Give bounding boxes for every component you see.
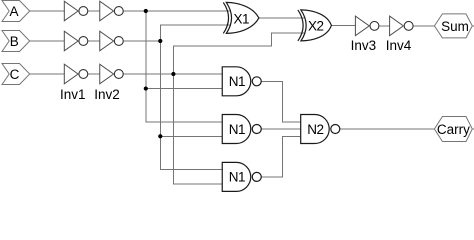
svg-text:Inv4: Inv4 <box>386 38 412 53</box>
junction dot B to N1b <box>158 134 162 138</box>
svg-text:X2: X2 <box>308 18 324 33</box>
inverter A row first (triangle and bubble) <box>64 1 88 21</box>
wire Carry tag right stub <box>472 128 474 130</box>
output tag Sum <box>434 14 472 38</box>
inverter A row second <box>100 1 124 21</box>
wire B vertical tap down to N1c <box>160 41 224 170</box>
svg-text:Carry: Carry <box>437 122 470 137</box>
input tag B <box>2 31 30 52</box>
wire N1a output to N2 top input <box>261 81 302 121</box>
wire C row: between inverters <box>88 73 101 75</box>
junction dot C row <box>171 72 175 76</box>
input tag A <box>2 1 30 22</box>
svg-text:B: B <box>10 34 19 49</box>
svg-text:N2: N2 <box>307 122 323 137</box>
wire N1c output to N2 bottom input <box>261 136 302 177</box>
input tag C <box>2 64 30 85</box>
svg-text:A: A <box>9 4 18 19</box>
wire A vertical tap down <box>146 11 224 122</box>
wire B tap up to X1 lower input <box>160 25 233 41</box>
inverter C row second Inv2 <box>100 64 124 84</box>
wire C vertical tap down to N1c lower input <box>173 74 224 184</box>
svg-text:Sum: Sum <box>441 19 469 34</box>
wire X1 output to X2 top input <box>259 17 307 19</box>
inverter C row first Inv1 <box>64 64 88 84</box>
wire A to N1a lower input <box>146 88 224 90</box>
svg-text:X1: X1 <box>233 11 249 26</box>
wire C tap up to X2 lower input <box>173 33 307 74</box>
wire C row: tag C to inverter <box>30 73 66 75</box>
junction dot A row <box>144 9 148 13</box>
wire Inv4 to Sum tag <box>413 25 434 27</box>
wire A row: tag A to inverter <box>30 10 66 12</box>
junction dot B row <box>158 39 162 43</box>
NAND gate N1a <box>222 67 261 96</box>
svg-text:N1: N1 <box>229 74 245 89</box>
junction dot A to N1a <box>144 86 148 90</box>
wire Sum tag right stub <box>472 25 474 27</box>
wire N1b output to N2 middle input <box>261 128 302 130</box>
XOR gate X1 <box>223 2 259 33</box>
NAND gate N1b <box>222 115 261 144</box>
svg-text:Inv2: Inv2 <box>94 87 120 102</box>
inverter B row second <box>100 31 124 51</box>
output tag Carry <box>434 117 472 142</box>
wire B to N1b lower input <box>160 135 224 137</box>
svg-text:C: C <box>10 67 20 82</box>
svg-text:Inv3: Inv3 <box>351 38 377 53</box>
wire B row: tag B to inverter <box>30 40 66 42</box>
svg-text:N1: N1 <box>229 122 245 137</box>
wire A row: inverter to XOR X1 top input <box>123 10 233 12</box>
wire C row: inverter to NAND N1a top input <box>123 73 224 75</box>
NAND gate N1c <box>222 162 261 191</box>
wire Inv3 to Inv4 <box>379 25 392 27</box>
inverter B row first <box>64 31 88 51</box>
wire B row: inverter to B tap junction <box>123 40 160 42</box>
wire N2 output to Carry tag <box>340 128 435 130</box>
wire X2 output to Inv3 <box>331 25 357 27</box>
inverter Inv4 <box>390 16 413 36</box>
inverter Inv3 <box>355 16 379 36</box>
NAND gate N2 <box>301 115 340 144</box>
svg-text:N1: N1 <box>229 170 245 185</box>
XOR gate X2 <box>298 10 332 41</box>
svg-text:Inv1: Inv1 <box>60 87 86 102</box>
wire A row: between inverters <box>88 10 101 12</box>
wire B row: between inverters <box>88 40 101 42</box>
